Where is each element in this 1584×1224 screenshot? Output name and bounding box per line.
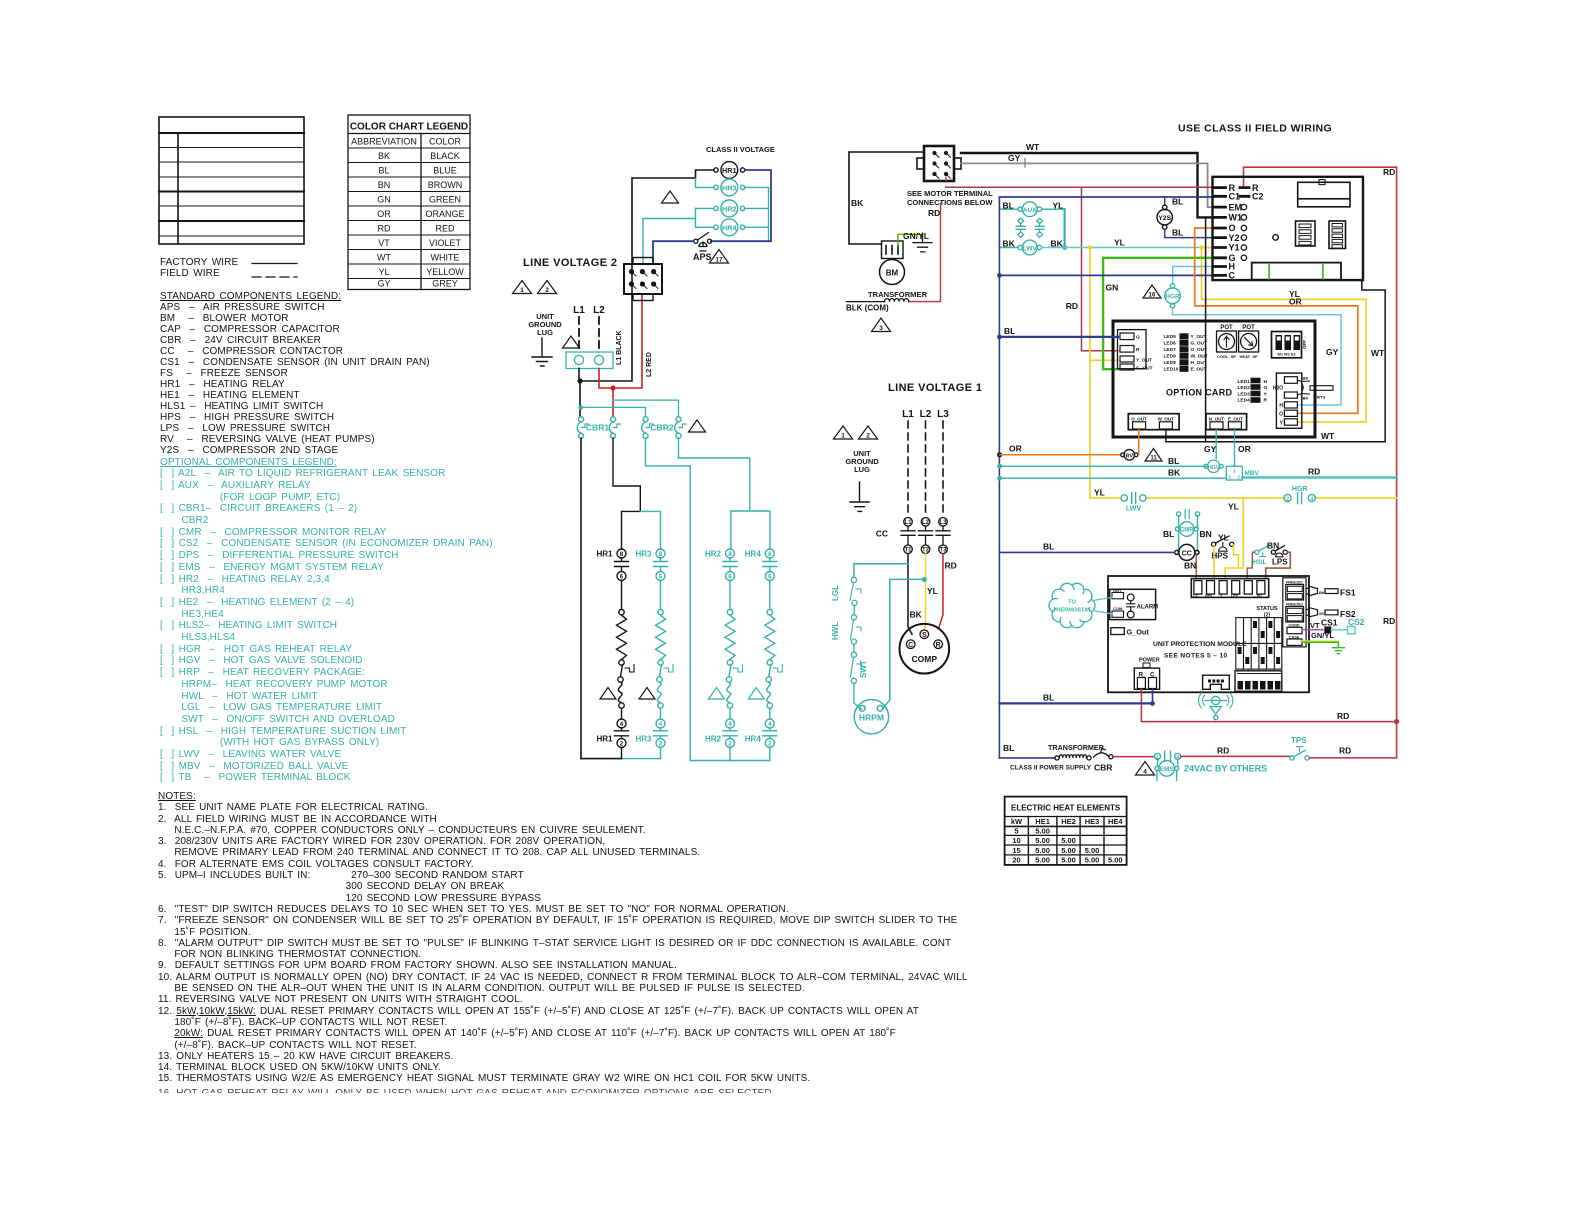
- notes: [158, 791, 968, 1085]
- thermal protection switch TPS: [1290, 736, 1310, 760]
- svg-text:WT: WT: [1371, 348, 1385, 358]
- svg-text:LED3: LED3: [1238, 391, 1251, 397]
- svg-text:EMS: EMS: [1160, 766, 1175, 773]
- heating element string HR2: [705, 549, 743, 761]
- junction BL bus / G feed: [997, 335, 1002, 340]
- svg-text:O_OUT: O_OUT: [1131, 417, 1147, 422]
- wire: red to CBR1 right pole: [612, 388, 614, 417]
- svg-text:R: R: [1136, 347, 1140, 353]
- svg-text:HR1: HR1: [596, 735, 613, 744]
- svg-text:11: 11: [1150, 456, 1157, 462]
- svg-text:CLASS II POWER SUPPLY: CLASS II POWER SUPPLY: [1010, 765, 1092, 772]
- relay coil HR4: [714, 219, 745, 236]
- standard components legend: [160, 291, 430, 457]
- svg-text:LUG: LUG: [537, 328, 553, 337]
- svg-text:L2: L2: [922, 520, 930, 526]
- svg-text:BK: BK: [1319, 590, 1325, 595]
- svg-text:5.00: 5.00: [1035, 846, 1050, 855]
- wire: navy from HR1 right down to APS: [711, 170, 771, 241]
- warning triangle 1: [513, 281, 532, 295]
- svg-text:ELECTRIC HEAT ELEMENTS: ELECTRIC HEAT ELEMENTS: [1011, 804, 1121, 813]
- svg-text:MBV: MBV: [1245, 470, 1260, 477]
- svg-text:W1: W1: [1229, 213, 1243, 223]
- svg-text:YL: YL: [1094, 488, 1105, 498]
- heater return bus HR1 HR3: [581, 758, 622, 760]
- svg-text:kW: kW: [1011, 817, 1023, 826]
- terminal block footer connector: [1252, 263, 1341, 280]
- svg-text:CC: CC: [1182, 550, 1192, 557]
- wire: BL Y2S to Y2: [1165, 229, 1214, 237]
- svg-text:HR4: HR4: [745, 550, 762, 559]
- svg-text:CS2: CS2: [1348, 617, 1365, 627]
- option card N_OUT E_OUT connector: [1206, 414, 1247, 430]
- heating element string HR1: [596, 549, 634, 759]
- svg-text:BN: BN: [1267, 541, 1279, 551]
- wire: RD EMS to TPS: [1181, 755, 1290, 757]
- svg-text:BLACK: BLACK: [430, 151, 460, 161]
- svg-text:BK: BK: [1003, 238, 1016, 248]
- wire: RD transformer loop: [909, 178, 947, 302]
- svg-text:LWV: LWV: [1023, 245, 1038, 252]
- svg-text:W1 W2 E2: W1 W2 E2: [1277, 353, 1295, 357]
- svg-text:T3: T3: [939, 548, 947, 554]
- heat recovery pump motor HRPM: [854, 700, 888, 734]
- svg-text:E_OUT: E_OUT: [1191, 367, 1207, 373]
- relay coil HR3: [714, 179, 745, 196]
- svg-text:5.00: 5.00: [1061, 856, 1076, 865]
- warning triangle 2 (LV1): [859, 426, 878, 440]
- leaving water valve relay LWV: [999, 240, 1041, 255]
- junction S yellow/teal: [922, 577, 927, 582]
- warning triangle (CBR2): [689, 420, 706, 432]
- svg-text:LINE VOLTAGE 2: LINE VOLTAGE 2: [523, 257, 617, 269]
- wire: RD branch to option card R input: [1082, 187, 1119, 351]
- svg-text:HE1: HE1: [1035, 817, 1050, 826]
- svg-text:TO: TO: [1068, 600, 1076, 606]
- svg-text:4: 4: [1310, 496, 1313, 502]
- svg-text:HGR: HGR: [1292, 486, 1308, 493]
- svg-text:2: 2: [728, 741, 732, 748]
- wire: teal to HGV: [1000, 465, 1206, 467]
- svg-text:YL: YL: [1218, 533, 1229, 543]
- svg-text:HE2: HE2: [1061, 817, 1076, 826]
- svg-text:L2: L2: [920, 409, 932, 420]
- svg-text:HR4: HR4: [722, 223, 738, 232]
- ground symbol (BM): [913, 233, 932, 252]
- svg-text:RD: RD: [1066, 301, 1078, 311]
- junction yellow branch on YL line: [1088, 245, 1092, 249]
- svg-text:5.00: 5.00: [1085, 856, 1100, 865]
- reversing valve RV: [1121, 450, 1138, 461]
- svg-text:2: 2: [1286, 496, 1289, 502]
- svg-text:COM: COM: [1113, 606, 1123, 611]
- svg-text:GREY: GREY: [432, 279, 458, 289]
- svg-text:BK: BK: [1168, 468, 1181, 478]
- energy mgmt contact EMS 2-4: [1155, 751, 1181, 761]
- terminal bars column 2 (R C2): [1240, 188, 1249, 197]
- svg-text:OFF→: OFF→: [1302, 336, 1307, 350]
- svg-text:C: C: [908, 642, 913, 649]
- svg-text:HE4: HE4: [1108, 817, 1123, 826]
- svg-text:COOL_SP: COOL_SP: [1217, 354, 1236, 359]
- svg-text:BL: BL: [1168, 456, 1179, 466]
- svg-text:GY: GY: [1008, 153, 1021, 163]
- hot gas reheat relay HGR: [1165, 284, 1181, 308]
- wire: R line maroon: [946, 186, 1214, 188]
- warning triangle 1 (LV1): [834, 426, 853, 440]
- ground symbol (LV2): [532, 338, 552, 366]
- transformer secondary winding: [847, 299, 909, 305]
- svg-text:10: 10: [1012, 836, 1020, 845]
- svg-text:H2O: H2O: [1273, 386, 1283, 392]
- svg-text:5.00: 5.00: [1108, 856, 1123, 865]
- svg-text:PC: PC: [1257, 594, 1262, 598]
- svg-text:2: 2: [659, 741, 663, 748]
- hot gas valve solenoid HGV: [1204, 460, 1223, 472]
- potentiometer HEAT_SP: [1239, 325, 1259, 359]
- UPM lower dip connector: [1235, 671, 1282, 692]
- motorized ball valve MBV: [1226, 466, 1259, 480]
- svg-text:1: 1: [1229, 474, 1232, 479]
- svg-text:BK: BK: [851, 198, 864, 208]
- auxiliary relay AUX: [999, 202, 1064, 217]
- option card dip switch bank: [1272, 332, 1308, 358]
- svg-text:LED8: LED8: [1164, 354, 1177, 360]
- svg-text:W_OUT: W_OUT: [1191, 354, 1208, 360]
- svg-text:L3: L3: [937, 409, 949, 420]
- svg-text:GN: GN: [1106, 283, 1119, 293]
- relay coil HR2: [714, 200, 745, 217]
- wire: OR orange O loop to option card O pin: [1195, 228, 1358, 413]
- svg-text:BN: BN: [378, 180, 391, 190]
- high pressure switch HPS: [1212, 536, 1234, 561]
- wire: RD from R-C2 up and around right side: [1244, 167, 1397, 756]
- heater return bus HR2 HR4: [690, 760, 770, 762]
- field wire sample line: [252, 276, 297, 278]
- svg-text:YL: YL: [1114, 238, 1125, 248]
- svg-text:L1: L1: [904, 520, 912, 526]
- svg-text:L1 BLACK: L1 BLACK: [616, 330, 623, 365]
- svg-text:17: 17: [715, 257, 723, 264]
- svg-text:HR3: HR3: [722, 183, 737, 192]
- wire: BL thick to option card G input: [999, 336, 1118, 338]
- svg-text:O: O: [1229, 223, 1236, 233]
- note 16 clipped at image bottom edge: [158, 1088, 772, 1093]
- terminal block relay box: [1298, 180, 1350, 207]
- svg-text:ORANGE: ORANGE: [425, 209, 464, 219]
- class II transformer winding: [1055, 755, 1091, 760]
- svg-text:OUT: OUT: [1113, 588, 1122, 593]
- junction (AUX drop on YL line): [1062, 245, 1067, 250]
- wire: BL from UPM power C: [1152, 689, 1154, 704]
- wire: yellow branch down to Y_OUT and LWV contact: [1090, 248, 1118, 499]
- wire: WT loop W1 to option card surround: [1166, 217, 1385, 441]
- terminal bars column 1: [1215, 188, 1226, 276]
- svg-text:E_OUT: E_OUT: [1228, 417, 1243, 422]
- leaving water valve contact LWV: [1121, 493, 1146, 513]
- svg-text:OR: OR: [1238, 444, 1251, 454]
- svg-text:HGV: HGV: [1208, 465, 1220, 471]
- svg-text:LPS: LPS: [1272, 558, 1288, 567]
- high temperature suction limit HSL: [1253, 545, 1270, 566]
- compressor COMP: [900, 624, 950, 674]
- junction BL bus bottom: [1150, 701, 1155, 706]
- svg-text:LED1: LED1: [1238, 379, 1251, 385]
- svg-text:1: 1: [520, 287, 524, 294]
- option card input header: [1118, 330, 1153, 372]
- svg-text:LGL: LGL: [831, 585, 840, 601]
- wire: BN short from HSL left: [1247, 552, 1255, 577]
- svg-text:BL: BL: [1172, 197, 1183, 207]
- svg-text:G_OUT: G_OUT: [1136, 366, 1153, 372]
- svg-text:Y_OUT: Y_OUT: [1136, 358, 1152, 364]
- svg-text:YL: YL: [927, 586, 938, 596]
- wire: HR3 HR2 HR4 left teal: [643, 178, 714, 263]
- junction L1: [577, 378, 582, 383]
- option card H2O connector: [1273, 373, 1333, 428]
- freeze sensor FS2: [1306, 608, 1356, 619]
- svg-text:STATUS: STATUS: [1256, 606, 1278, 612]
- wire: yellow HPS to UPM slots: [1214, 545, 1238, 577]
- svg-text:YELLOW: YELLOW: [426, 267, 464, 277]
- wire: teal HRP tap at T1: [854, 564, 908, 578]
- svg-text:FS1: FS1: [1340, 588, 1356, 598]
- wire: teal RD line MBV to red bus: [1242, 476, 1396, 479]
- compressor monitor relay contact: [1176, 510, 1199, 519]
- svg-text:5.00: 5.00: [1035, 836, 1050, 845]
- terminal labels column 1: [1229, 183, 1243, 281]
- svg-text:W_OUT: W_OUT: [1158, 417, 1175, 422]
- svg-text:CBR1: CBR1: [586, 423, 609, 433]
- compressor contactor CC (power contacts): [901, 518, 950, 554]
- svg-text:LED7: LED7: [1164, 347, 1177, 353]
- svg-text:ABBREVIATION: ABBREVIATION: [351, 137, 417, 147]
- svg-text:CBR2: CBR2: [650, 423, 673, 433]
- wire: yellow into Y1 bar: [1202, 247, 1215, 249]
- wire: CBR1 left pole down (black): [580, 438, 582, 758]
- wire: BL left bus vertical: [998, 197, 1000, 758]
- wire: teal branch to HR3 heater: [640, 511, 660, 549]
- warning triangle (HR row): [662, 191, 679, 203]
- wire: T2 yellow to comp: [925, 554, 926, 629]
- svg-text:BL: BL: [1043, 693, 1054, 703]
- junction teal BL/HGV on bus: [997, 464, 1002, 469]
- svg-text:COLOR: COLOR: [429, 137, 462, 147]
- svg-text:CC: CC: [1193, 594, 1199, 598]
- svg-text:BN: BN: [1184, 561, 1196, 571]
- svg-text:COMP: COMP: [912, 654, 938, 664]
- svg-text:BK: BK: [910, 610, 923, 620]
- junction RD: [1394, 719, 1399, 724]
- warning triangle 11: [1145, 449, 1162, 462]
- wire: H light blue to HGR: [1173, 267, 1214, 284]
- wire: BL bus bottom: [999, 702, 1152, 704]
- svg-text:RD: RD: [1339, 746, 1351, 756]
- svg-text:8: 8: [620, 551, 624, 558]
- svg-text:RD: RD: [1217, 746, 1229, 756]
- svg-text:HEAT_SP: HEAT_SP: [1240, 354, 1258, 359]
- wire: teal drop AUX to LWV line: [1063, 209, 1065, 247]
- wire: teal N_OUT to HGV: [1215, 430, 1217, 459]
- svg-text:WT: WT: [1321, 431, 1335, 441]
- svg-text:RD: RD: [1337, 711, 1349, 721]
- wire: RD CBR to EMS contact: [1113, 756, 1155, 758]
- svg-text:5.00: 5.00: [1035, 827, 1050, 836]
- ground symbol (LV1): [850, 482, 869, 511]
- 24v circuit breaker CBR2: [642, 417, 686, 439]
- svg-text:LED4: LED4: [1238, 398, 1251, 404]
- wire: field leads L1 L2 dashed: [579, 317, 599, 352]
- compressor contactor coil CC: [1175, 544, 1199, 560]
- svg-text:3: 3: [879, 325, 883, 332]
- terminal screw holes: [1241, 204, 1246, 260]
- wire legend: factory/field: [160, 257, 238, 279]
- svg-text:H_OUT: H_OUT: [1191, 360, 1207, 366]
- wire: W_OUT to WT line: [1165, 430, 1167, 442]
- energy mgmt system relay EMS: [1155, 759, 1179, 780]
- svg-text:2: 2: [620, 741, 624, 748]
- svg-text:BK: BK: [1303, 396, 1309, 401]
- capacitor CAP 1: [1016, 218, 1025, 237]
- warning triangle 2: [538, 281, 557, 295]
- wire: teal to MBV: [1000, 477, 1227, 479]
- svg-text:RD: RD: [945, 561, 957, 571]
- thermostat terminal block: [1213, 177, 1364, 280]
- svg-text:RD: RD: [928, 208, 940, 218]
- wire: GN/YL to ground: [898, 234, 923, 245]
- svg-text:H: H: [1279, 403, 1283, 409]
- wire: black to CBR1 left pole: [579, 381, 581, 417]
- svg-text:CBR: CBR: [1094, 763, 1112, 773]
- svg-text:RD: RD: [1308, 467, 1320, 477]
- svg-text:BLK (COM): BLK (COM): [846, 304, 889, 313]
- svg-text:GY: GY: [1326, 347, 1339, 357]
- svg-text:GREEN: GREEN: [429, 195, 461, 205]
- svg-text:Y: Y: [1280, 421, 1284, 427]
- svg-text:CS1: CS1: [1321, 618, 1338, 628]
- svg-text:Y_OUT: Y_OUT: [1191, 334, 1207, 340]
- thermostat cloud: [1049, 583, 1095, 627]
- svg-text:TRANSFORMER: TRANSFORMER: [868, 290, 928, 299]
- svg-text:GN/YL: GN/YL: [903, 231, 929, 241]
- svg-text:EM: EM: [1229, 202, 1243, 212]
- svg-text:VT: VT: [1310, 621, 1320, 630]
- svg-text:L2: L2: [593, 305, 605, 316]
- 24v circuit breaker CBR1: [577, 417, 620, 439]
- option card LED5-LED10: [1164, 333, 1208, 372]
- air pressure switch APS: [694, 233, 712, 252]
- junction OR on BL bus: [997, 452, 1002, 457]
- warning triangle 17: [710, 250, 729, 264]
- svg-text:YL: YL: [378, 267, 389, 277]
- svg-text:5: 5: [1014, 827, 1018, 836]
- motor terminal connector: [917, 146, 961, 181]
- connector pins: [629, 270, 658, 289]
- wire: BK to blower motor: [849, 152, 924, 244]
- svg-text:O: O: [1264, 385, 1268, 391]
- svg-text:BN: BN: [1200, 529, 1212, 539]
- svg-text:HR2: HR2: [722, 204, 737, 213]
- wire: orange O_OUT to RV: [1138, 430, 1140, 455]
- wire: GN green G line: [1103, 258, 1214, 369]
- svg-text:BL: BL: [1003, 743, 1014, 753]
- svg-text:HR2: HR2: [705, 550, 722, 559]
- UPM middle connector: [1203, 675, 1230, 689]
- wire: BN LPS to UPM slot: [1266, 552, 1291, 577]
- svg-text:BL: BL: [1043, 542, 1054, 552]
- svg-text:G: G: [1136, 335, 1140, 341]
- svg-text:5.00: 5.00: [1035, 856, 1050, 865]
- svg-text:O: O: [1279, 411, 1283, 417]
- svg-text:Y1: Y1: [1229, 243, 1240, 253]
- svg-text:L1: L1: [902, 409, 914, 420]
- svg-text:RD: RD: [1383, 616, 1395, 626]
- svg-text:GN: GN: [377, 195, 391, 205]
- wire GN/YL case ground: [1302, 641, 1338, 643]
- svg-text:LPS: LPS: [1231, 594, 1239, 598]
- svg-text:C2: C2: [1252, 192, 1264, 202]
- svg-text:HWL: HWL: [831, 622, 840, 640]
- svg-text:3: 3: [1233, 469, 1236, 474]
- svg-text:HR1: HR1: [596, 550, 613, 559]
- svg-text:LED6: LED6: [1164, 341, 1177, 347]
- wire: light blue HGR to option card H pin: [1173, 308, 1342, 405]
- svg-text:LED5: LED5: [1164, 334, 1177, 340]
- svg-text:OPTION CARD: OPTION CARD: [1166, 388, 1233, 398]
- svg-text:1: 1: [841, 433, 845, 440]
- svg-text:YL: YL: [1228, 502, 1239, 512]
- potentiometer COOL_SP: [1217, 325, 1237, 359]
- svg-text:HR3: HR3: [635, 550, 652, 559]
- junction teal bus: [578, 405, 583, 410]
- svg-text:APS: APS: [693, 252, 712, 262]
- svg-text:HGR: HGR: [1165, 294, 1180, 301]
- svg-text:8: 8: [768, 551, 772, 558]
- option card board: [1113, 321, 1315, 437]
- svg-text:THERMOSTAT: THERMOSTAT: [1053, 608, 1092, 614]
- low pressure switch LPS: [1271, 546, 1288, 567]
- wire: RD from UPM power R: [1141, 689, 1396, 722]
- unit protection module UPM board: [1108, 576, 1309, 692]
- heating element string HR4: [745, 549, 783, 761]
- warning triangle (HR3 heater): [639, 688, 655, 700]
- UPM G_Out terminal: [1111, 627, 1150, 636]
- optional components legend: [160, 457, 493, 785]
- svg-text:CC: CC: [876, 529, 888, 539]
- svg-text:5.00: 5.00: [1061, 836, 1076, 845]
- svg-text:2: 2: [545, 287, 549, 294]
- svg-text:BK: BK: [378, 151, 390, 161]
- low gas temperature limit LGL: [831, 577, 861, 605]
- condensate sensor CS2: [1331, 629, 1347, 631]
- wire: yellow Y1 loop to option card Y pin: [1202, 248, 1367, 423]
- svg-text:8: 8: [728, 551, 732, 558]
- svg-text:BL: BL: [1163, 529, 1174, 539]
- wire: teal bus black pole to CBR2 left: [581, 407, 646, 416]
- option card LED1-LED4: [1238, 378, 1268, 404]
- warning triangle (HR1 heater): [600, 688, 616, 700]
- svg-text:CMR: CMR: [1180, 528, 1194, 534]
- circuit breaker CBR (24v): [1094, 748, 1114, 772]
- warning triangle 3: [872, 318, 891, 332]
- svg-text:16: 16: [1149, 292, 1156, 299]
- svg-text:LED2: LED2: [1238, 385, 1251, 391]
- warning triangle 16: [1143, 285, 1161, 299]
- svg-text:WHITE: WHITE: [431, 253, 460, 263]
- warning triangle 4: [1136, 762, 1155, 776]
- svg-text:RED: RED: [435, 224, 455, 234]
- wire: yellow drop to HPS: [1225, 498, 1243, 577]
